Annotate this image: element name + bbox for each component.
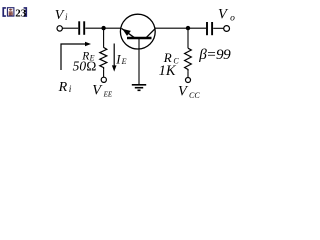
svg-text:50Ω: 50Ω	[73, 59, 97, 74]
svg-text:o: o	[230, 13, 235, 23]
svg-text:R: R	[58, 80, 68, 95]
svg-text:i: i	[69, 85, 72, 95]
svg-text:23: 23	[15, 7, 26, 19]
svg-text:1K: 1K	[159, 63, 177, 79]
svg-text:V: V	[55, 8, 65, 23]
svg-text:I: I	[115, 51, 121, 66]
svg-text:EE: EE	[103, 90, 113, 98]
svg-text:CC: CC	[189, 91, 200, 100]
svg-text:β=99: β=99	[198, 46, 231, 63]
svg-text:E: E	[121, 57, 127, 66]
